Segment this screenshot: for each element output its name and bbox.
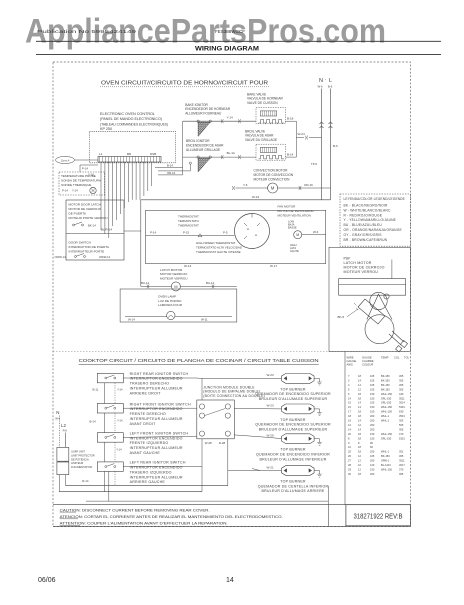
svg-text:BK-150: BK-150: [381, 383, 390, 387]
svg-text:ENCENDEDOR DE HORNEAR: ENCENDEDOR DE HORNEAR: [185, 107, 231, 111]
svg-text:MOTEUR CONVECTION: MOTEUR CONVECTION: [254, 178, 291, 182]
svg-text:BROIL IGNITOR: BROIL IGNITOR: [186, 139, 210, 143]
svg-text:W-6: W-6: [313, 230, 319, 234]
svg-text:B-14: B-14: [90, 419, 96, 423]
svg-text:THERMOSTAT HAUTE VITESSE: THERMOSTAT HAUTE VITESSE: [196, 250, 241, 254]
svg-text:HAUTE: HAUTE: [290, 249, 299, 253]
svg-text:GY - GRAY/GRIS/GRIS: GY - GRAY/GRIS/GRIS: [344, 233, 383, 237]
svg-text:VALVULA DE HORNEAR: VALVULA DE HORNEAR: [247, 97, 284, 101]
svg-text:P&F: P&F: [344, 257, 352, 261]
svg-text:SRL-150: SRL-150: [381, 436, 392, 440]
svg-text:W-14: W-14: [128, 318, 135, 322]
svg-text:105: 105: [370, 401, 375, 405]
svg-text:Y - YELLOW/AMARILLO/JAUNE: Y - YELLOW/AMARILLO/JAUNE: [344, 218, 397, 222]
svg-text:OR-16: OR-16: [304, 183, 313, 187]
svg-text:Y-14: Y-14: [117, 418, 123, 422]
svg-text:305: 305: [399, 472, 404, 476]
svg-text:150: 150: [370, 405, 375, 409]
svg-text:P-14: P-14: [82, 167, 88, 171]
svg-text:ATENCION: CORTAR EL CORRIENTE: ATENCION: CORTAR EL CORRIENTE ANTES DE R…: [60, 515, 283, 519]
svg-text:ELECTRONIC OVEN CONTROL: ELECTRONIC OVEN CONTROL: [100, 112, 155, 116]
svg-text:AVANT GAUCHE: AVANT GAUCHE: [130, 451, 161, 455]
svg-text:INTERRUPTEUR ALLUMEUR: INTERRUPTEUR ALLUMEUR: [130, 387, 183, 391]
svg-text:TERMOSTATO ALTA VELOCIDAD: TERMOSTATO ALTA VELOCIDAD: [196, 246, 243, 250]
svg-text:150: 150: [370, 392, 375, 396]
svg-text:RIGHT FRONT IGNITOR SWITCH: RIGHT FRONT IGNITOR SWITCH: [130, 402, 191, 406]
svg-text:GAUGE: GAUGE: [347, 359, 357, 363]
svg-text:305: 305: [399, 378, 404, 382]
svg-text:BASSE: BASSE: [288, 226, 297, 230]
svg-text:WHL-1: WHL-1: [381, 419, 390, 423]
svg-text:KP 250: KP 250: [100, 127, 112, 131]
svg-text:R-6: R-6: [63, 429, 68, 433]
svg-text:B-18: B-18: [287, 117, 294, 121]
svg-text:LEFT FRONT IGNITOR SWITCH: LEFT FRONT IGNITOR SWITCH: [130, 431, 189, 435]
svg-text:370: 370: [399, 467, 404, 471]
svg-text:FRENTE DERECHO: FRENTE DERECHO: [130, 412, 166, 416]
svg-text:MOTOR DOOR LATCH: MOTOR DOOR LATCH: [69, 203, 101, 207]
svg-text:LAMPARA FOUR: LAMPARA FOUR: [158, 303, 183, 307]
svg-text:3011: 3011: [399, 459, 405, 463]
svg-text:305: 305: [399, 454, 404, 458]
svg-text:Y-14: Y-14: [227, 115, 233, 119]
svg-text:MOTOR DE CERROJO: MOTOR DE CERROJO: [69, 207, 102, 211]
svg-text:FES388WGCF: FES388WGCF: [215, 29, 245, 34]
svg-text:AWG: AWG: [347, 363, 353, 367]
svg-text:06/06: 06/06: [38, 577, 56, 584]
svg-text:VALVULA DE ASAR: VALVULA DE ASAR: [245, 134, 274, 138]
svg-text:BK-150: BK-150: [381, 374, 390, 378]
svg-text:318271922 REV:B: 318271922 REV:B: [354, 511, 403, 520]
svg-text:CONVECTION MOTOR: CONVECTION MOTOR: [254, 169, 289, 173]
svg-text:ALLUMEUR FOURNEAU: ALLUMEUR FOURNEAU: [185, 112, 222, 116]
svg-text:BU-14: BU-14: [141, 281, 150, 285]
svg-text:BRULEUR D'ALLUMAGE SUPERIEUR: BRULEUR D'ALLUMAGE SUPERIEUR: [259, 428, 328, 432]
svg-text:B-6: B-6: [333, 144, 338, 148]
svg-text:TOP BURNER: TOP BURNER: [280, 448, 306, 452]
svg-text:GAUGE: GAUGE: [362, 356, 372, 360]
svg-text:BROIL VALVE: BROIL VALVE: [245, 129, 265, 133]
svg-text:150: 150: [370, 396, 375, 400]
svg-text:14: 14: [226, 577, 234, 584]
svg-text:LEFT REAR IGNITOR SWITCH: LEFT REAR IGNITOR SWITCH: [130, 461, 186, 465]
svg-text:Y-6: Y-6: [243, 183, 248, 187]
svg-text:CALIBRE: CALIBRE: [362, 359, 374, 363]
svg-text:·: ·: [325, 77, 327, 83]
svg-text:120: 120: [370, 463, 375, 467]
svg-text:440: 440: [399, 392, 404, 396]
svg-text:351: 351: [399, 450, 404, 454]
svg-text:MOTOR CERROJO: MOTOR CERROJO: [160, 272, 188, 276]
svg-text:105: 105: [370, 383, 375, 387]
svg-text:AVANT DROIT: AVANT DROIT: [130, 422, 157, 426]
svg-text:OR - ORANGE/NARANJA/ORANGE: OR - ORANGE/NARANJA/ORANGE: [344, 228, 403, 232]
svg-text:L2: L2: [61, 423, 66, 428]
svg-text:D'ALIMENTATION: D'ALIMENTATION: [71, 465, 92, 469]
svg-text:BAKE VALVE: BAKE VALVE: [247, 92, 266, 96]
svg-text:WHL-150: WHL-150: [381, 405, 393, 409]
svg-text:INTERRUPTOR DE PUERTA: INTERRUPTOR DE PUERTA: [69, 245, 111, 249]
svg-text:Y-14: Y-14: [116, 447, 122, 451]
svg-text:W-28: W-28: [205, 441, 212, 445]
svg-text:MOTOR DE CERROJO: MOTOR DE CERROJO: [344, 266, 385, 270]
svg-text:BL-14: BL-14: [227, 151, 235, 155]
svg-text:W-24: W-24: [298, 132, 305, 136]
svg-text:353: 353: [399, 419, 404, 423]
svg-text:W-6: W-6: [318, 85, 324, 89]
svg-text:BK-150: BK-150: [381, 454, 390, 458]
svg-text:305: 305: [399, 383, 404, 387]
svg-text:L1: L1: [99, 152, 103, 156]
svg-text:BK-5: BK-5: [338, 315, 345, 319]
svg-text:BAKE IGNITOR: BAKE IGNITOR: [185, 103, 208, 107]
svg-text:WHL-150: WHL-150: [381, 410, 393, 414]
svg-text:W-14: W-14: [184, 264, 191, 268]
svg-text:TOP BURNER: TOP BURNER: [280, 418, 306, 422]
svg-text:VALVE DE CUISSON: VALVE DE CUISSON: [247, 101, 278, 105]
svg-text:COL: COL: [394, 356, 400, 360]
svg-text:W-17: W-17: [270, 264, 277, 268]
svg-text:P-14: P-14: [62, 189, 68, 193]
svg-text:LATCH MOTOR: LATCH MOTOR: [160, 268, 183, 272]
svg-text:BU-14: BU-14: [206, 281, 215, 285]
svg-text:BU - BLUE/AZUL/BLEU: BU - BLUE/AZUL/BLEU: [344, 223, 383, 227]
svg-text:P-5: P-5: [223, 231, 228, 235]
svg-text:BL-1201: BL-1201: [381, 463, 391, 467]
svg-text:B-14: B-14: [167, 164, 173, 168]
svg-text:INTERRUPTEUR ALLUMEUR: INTERRUPTEUR ALLUMEUR: [130, 446, 183, 450]
svg-text:TEMP: TEMP: [381, 356, 389, 360]
svg-text:QUEMADOR DE ENCENDIDO INFERIOR: QUEMADOR DE ENCENDIDO INFERIOR: [256, 453, 330, 457]
svg-text:N: N: [319, 78, 323, 84]
svg-text:TOP BURNER: TOP BURNER: [280, 387, 306, 391]
svg-text:N: N: [56, 410, 59, 415]
svg-text:LIMITEUR: LIMITEUR: [71, 461, 83, 465]
svg-text:COLEUR: COLEUR: [362, 363, 373, 367]
svg-text:TRASERO IZQUIERDO: TRASERO IZQUIERDO: [130, 470, 172, 474]
svg-text:R-14: R-14: [82, 479, 89, 483]
svg-text:W-29: W-29: [267, 434, 274, 438]
svg-text:WHL-150: WHL-150: [381, 392, 393, 396]
svg-text:Conv A: Conv A: [61, 158, 70, 162]
svg-text:FAN MOTOR: FAN MOTOR: [278, 205, 297, 209]
svg-text:OR/W-14: OR/W-14: [55, 255, 67, 259]
svg-text:200: 200: [370, 459, 375, 463]
svg-text:DE POTENCIA: DE POTENCIA: [71, 457, 89, 461]
svg-text:CAUTION: DISCONNECT CURRENT BE: CAUTION: DISCONNECT CURRENT BEFORE REMOV…: [60, 508, 210, 512]
svg-text:RIGHT REAR IGNITOR SWITCH: RIGHT REAR IGNITOR SWITCH: [130, 372, 189, 376]
svg-text:Y-14: Y-14: [117, 388, 123, 392]
svg-text:150: 150: [370, 436, 375, 440]
svg-text:W-11: W-11: [201, 318, 208, 322]
svg-text:BR - BROWN/CAFE/BRUN: BR - BROWN/CAFE/BRUN: [344, 238, 388, 242]
svg-text:DOOR SWITCH: DOOR SWITCH: [69, 241, 91, 245]
svg-text:3014: 3014: [399, 401, 405, 405]
svg-text:150: 150: [370, 410, 375, 414]
svg-text:ARRIERE DROIT: ARRIERE DROIT: [130, 391, 162, 395]
svg-text:INTERRUPTEUR ALLUMEUR: INTERRUPTEUR ALLUMEUR: [130, 417, 183, 421]
svg-text:305: 305: [399, 374, 404, 378]
svg-text:L: L: [329, 78, 332, 84]
svg-text:200: 200: [370, 427, 375, 431]
svg-text:ARRIERE GAUCHE: ARRIERE GAUCHE: [130, 480, 166, 484]
svg-text:MOTOR DE CONVECCION: MOTOR DE CONVECCION: [254, 173, 294, 177]
svg-text:105: 105: [370, 387, 375, 391]
svg-text:SRL-150: SRL-150: [381, 401, 392, 405]
svg-text:ENCENDEDOR DE ASAR: ENCENDEDOR DE ASAR: [186, 143, 224, 147]
svg-text:OVEN CIRCUIT//CIRCUITO DE HORN: OVEN CIRCUIT//CIRCUITO DE HORNO//CIRCUIT…: [101, 81, 268, 87]
svg-text:LATCH MOTOR: LATCH MOTOR: [344, 261, 372, 265]
svg-text:200: 200: [370, 472, 375, 476]
svg-text:3531: 3531: [399, 414, 405, 418]
svg-text:THERMOSTAT: THERMOSTAT: [178, 215, 199, 219]
svg-text:3017: 3017: [399, 463, 405, 467]
svg-text:BK-150: BK-150: [381, 387, 390, 391]
svg-text:WHL-1: WHL-1: [381, 414, 390, 418]
svg-text:INTERRUPTOR ENCENDIDO: INTERRUPTOR ENCENDIDO: [130, 466, 183, 470]
svg-text:BK-150: BK-150: [381, 378, 390, 382]
svg-text:WHL-150: WHL-150: [381, 432, 393, 436]
svg-text:QUEMADOR DE ENCENDIDO SUPERIOR: QUEMADOR DE ENCENDIDO SUPERIOR: [255, 392, 331, 396]
svg-text:COOKTOP CIRCUIT / CIRCUITO DE: COOKTOP CIRCUIT / CIRCUITO DE PLANCHA DE…: [79, 358, 319, 363]
svg-text:OR/W-14: OR/W-14: [99, 255, 111, 259]
svg-text:TP-6: TP-6: [311, 162, 318, 166]
svg-text:OVEN LAMP: OVEN LAMP: [158, 294, 176, 298]
svg-text:(TABLEAU COMMANDES ELECTRONIQU: (TABLEAU COMMANDES ELECTRONIQUES): [100, 122, 168, 126]
svg-text:MOTEUR VENTILATION: MOTEUR VENTILATION: [278, 213, 311, 217]
svg-text:VALVE DU GRILLAGE: VALVE DU GRILLAGE: [245, 138, 277, 142]
svg-text:5301: 5301: [399, 436, 405, 440]
svg-text:BRULEUR D'ALLUMAGE INFERIEUR: BRULEUR D'ALLUMAGE INFERIEUR: [260, 457, 327, 461]
svg-text:W - WHITE/BLANCO/BLANC: W - WHITE/BLANCO/BLANC: [344, 208, 391, 212]
svg-text:QUEMADOR DE CENTELLA INFERIOR: QUEMADOR DE CENTELLA INFERIOR: [258, 484, 329, 488]
svg-text:Y-14: Y-14: [72, 189, 78, 193]
svg-text:3011: 3011: [399, 396, 405, 400]
svg-text:BK-14: BK-14: [88, 224, 96, 228]
svg-text:WIRING DIAGRAM: WIRING DIAGRAM: [195, 46, 259, 53]
svg-text:WHL-150: WHL-150: [381, 467, 393, 471]
svg-text:ALLUMEUR GRILLAGE: ALLUMEUR GRILLAGE: [186, 148, 220, 152]
svg-text:W-23: W-23: [267, 373, 274, 377]
svg-text:MOTEUR PORTE VERROU: MOTEUR PORTE VERROU: [69, 216, 108, 220]
svg-text:200: 200: [370, 423, 375, 427]
svg-text:QUEMADOR DE ENCENDIDO SUPERIOR: QUEMADOR DE ENCENDIDO SUPERIOR: [255, 423, 331, 427]
svg-text:M: M: [271, 186, 275, 191]
svg-text:INTERRUPTEUR ALLUMEUR: INTERRUPTEUR ALLUMEUR: [130, 475, 183, 479]
svg-text:LUZ DE HORNO: LUZ DE HORNO: [158, 299, 182, 303]
svg-text:SURF UNIT: SURF UNIT: [71, 450, 85, 454]
svg-text:SONDE THERMIQUE: SONDE THERMIQUE: [61, 183, 91, 187]
svg-text:THERMOSTAT: THERMOSTAT: [178, 223, 199, 227]
svg-text:TRASERO DERECHO: TRASERO DERECHO: [130, 382, 170, 386]
svg-text:M: M: [296, 233, 299, 237]
svg-text:LIMIT PROTECTOR: LIMIT PROTECTOR: [71, 454, 95, 458]
svg-text:W-24: W-24: [252, 195, 259, 199]
svg-text:SONDA DE TEMPERATURA: SONDA DE TEMPERATURA: [61, 178, 102, 182]
svg-text:TOP BURNER: TOP BURNER: [280, 480, 306, 484]
svg-text:MOTEUR VERROU: MOTEUR VERROU: [344, 270, 379, 274]
svg-text:BRULEUR D'ALLUMAGE SUPERIEUR: BRULEUR D'ALLUMAGE SUPERIEUR: [259, 397, 328, 401]
svg-text:W-23: W-23: [267, 404, 274, 408]
svg-text:P-15: P-15: [183, 231, 189, 235]
svg-text:150: 150: [370, 467, 375, 471]
svg-text:530: 530: [399, 410, 404, 414]
svg-text:SRL-150: SRL-150: [381, 396, 392, 400]
svg-text:200: 200: [370, 450, 375, 454]
svg-text:BRULEUR D'ALLUMAGE ARRIERE: BRULEUR D'ALLUMAGE ARRIERE: [261, 489, 324, 493]
svg-text:105: 105: [370, 454, 375, 458]
svg-text:INTERRUPTEUR PORTE: INTERRUPTEUR PORTE: [69, 250, 105, 254]
svg-text:DE PUERTA: DE PUERTA: [69, 212, 87, 216]
svg-text:HIGH SPEED THERMOSTAT: HIGH SPEED THERMOSTAT: [196, 241, 236, 245]
svg-text:200: 200: [370, 419, 375, 423]
svg-text:305: 305: [399, 427, 404, 431]
svg-text:470: 470: [399, 432, 404, 436]
svg-text:MOTOR DE VENTILADOR: MOTOR DE VENTILADOR: [278, 209, 315, 213]
svg-text:R-28: R-28: [219, 441, 226, 445]
svg-text:TEMPERATURE PROBE: TEMPERATURE PROBE: [61, 174, 96, 178]
svg-text:B-11: B-11: [93, 388, 99, 392]
svg-text:OR-14: OR-14: [167, 171, 176, 175]
svg-text:WHL-1: WHL-1: [381, 450, 390, 454]
svg-text:W-21: W-21: [267, 465, 274, 469]
svg-text:TOL: TOL: [404, 356, 410, 360]
svg-text:(PANEL DE MANDO ELECTRONICO): (PANEL DE MANDO ELECTRONICO): [100, 117, 162, 121]
svg-text:INTERRUPTOR ENCENDIDO: INTERRUPTOR ENCENDIDO: [130, 407, 183, 411]
svg-text:TERMOSTATO: TERMOSTATO: [178, 219, 200, 223]
svg-text:DSB: DSB: [150, 152, 156, 156]
svg-text:Publication No 5995424149: Publication No 5995424149: [37, 29, 137, 34]
svg-text:ATTENTION: COUPER L'ALIMENTATI: ATTENTION: COUPER L'ALIMENTATION AVANT D…: [60, 522, 228, 526]
svg-text:MOTEUR VERROU: MOTEUR VERROU: [160, 277, 188, 281]
svg-text:105: 105: [370, 378, 375, 382]
svg-text:WIRE: WIRE: [347, 356, 354, 360]
svg-text:M: M: [174, 285, 177, 289]
svg-text:B-14: B-14: [287, 153, 294, 157]
svg-text:105: 105: [370, 374, 375, 378]
svg-text:P-14: P-14: [150, 231, 156, 235]
svg-text:200: 200: [370, 414, 375, 418]
svg-text:INTERRUPTOR ENCENDIDO: INTERRUPTOR ENCENDIDO: [130, 377, 183, 381]
svg-text:BL/R-14: BL/R-14: [101, 228, 112, 232]
svg-text:A: A: [255, 233, 257, 237]
svg-text:FRENTE IZQUIERDO: FRENTE IZQUIERDO: [130, 441, 169, 445]
svg-text:305: 305: [399, 387, 404, 391]
svg-text:B-6: B-6: [328, 85, 333, 89]
svg-text:505: 505: [399, 423, 404, 427]
svg-text:LEYENDA/COLOR LEGEND/LEGENDE: LEYENDA/COLOR LEGEND/LEGENDE: [344, 197, 405, 201]
svg-text:SRW-1: SRW-1: [381, 459, 390, 463]
svg-text:R - RED/ROJO/ROUGE: R - RED/ROJO/ROUGE: [344, 213, 383, 217]
svg-text:BK - BLACK/NEGRO/NOIR: BK - BLACK/NEGRO/NOIR: [344, 204, 389, 208]
svg-text:150: 150: [370, 432, 375, 436]
svg-text:5301: 5301: [399, 405, 405, 409]
svg-text:A: A: [247, 227, 249, 231]
